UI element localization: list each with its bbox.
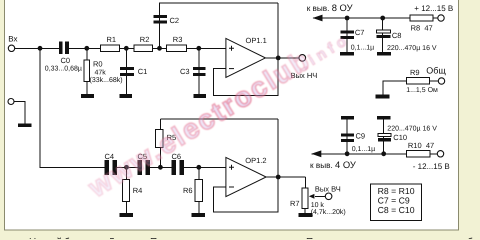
- svg-text:C0: C0: [61, 56, 71, 65]
- svg-text:OP1.2: OP1.2: [245, 156, 266, 165]
- svg-text:R6: R6: [183, 186, 193, 195]
- terminal +12V: [438, 15, 444, 21]
- ground below R6: [191, 213, 205, 217]
- wire C6 to opamp2: [184, 166, 226, 168]
- svg-text:C7 = C9: C7 = C9: [378, 196, 410, 206]
- wire C10 leads: [383, 119, 385, 154]
- node junction C10 rail: [381, 151, 386, 156]
- resistor R0: [84, 60, 90, 81]
- svg-text:R3: R3: [173, 35, 183, 44]
- svg-text:10 k: 10 k: [311, 201, 325, 209]
- wire R4 leads: [126, 167, 128, 213]
- node junction out1: [276, 56, 281, 61]
- terminal Вых ВЧ: [325, 193, 332, 200]
- capacitor C4: [104, 160, 117, 175]
- svg-text:C1: C1: [138, 67, 148, 76]
- terminal input2: [8, 99, 14, 105]
- capacitor C1: [120, 67, 134, 76]
- node junction R0: [84, 46, 89, 51]
- wire R7 wiper to terminal: [315, 195, 325, 197]
- capacitor C6: [171, 160, 184, 175]
- svg-text:к выв. 4 ОУ: к выв. 4 ОУ: [310, 159, 356, 170]
- svg-text:R2: R2: [140, 35, 150, 44]
- svg-text:R0: R0: [93, 60, 103, 69]
- svg-text:(4,7k...20k): (4,7k...20k): [311, 208, 346, 216]
- svg-text:+ 12...15 В: + 12...15 В: [414, 4, 453, 13]
- node junction C2: [157, 46, 162, 51]
- svg-text:OP1.1: OP1.1: [246, 36, 267, 45]
- svg-text:Пример: Пример: [306, 237, 343, 239]
- op-amp U1 OP1.1: [226, 38, 266, 77]
- op-amp U2 OP1.2: [226, 157, 266, 196]
- wire input2 terminal to ground: [14, 102, 25, 124]
- info box R8=R10: [371, 184, 422, 221]
- node junction input split: [38, 46, 43, 51]
- wire R2-R3: [153, 47, 167, 49]
- svg-text:220...470µ 16 V: 220...470µ 16 V: [387, 125, 437, 132]
- node junction C5-R5: [158, 165, 163, 170]
- wire R1-R2: [120, 47, 134, 49]
- capacitor C8 electrolytic: [376, 30, 390, 38]
- capacitor C5: [138, 160, 151, 175]
- svg-text:R7: R7: [290, 199, 300, 208]
- capacitor C2: [153, 15, 166, 24]
- wire R3 to opamp: [186, 47, 226, 49]
- terminal Вых НЧ: [299, 55, 306, 62]
- resistor R9: [406, 78, 429, 84]
- ground above C10: [377, 116, 390, 120]
- wire C8 leads: [382, 18, 384, 52]
- node junction C8 rail: [380, 16, 385, 21]
- svg-text:Общ: Общ: [426, 66, 446, 76]
- wire input to C0: [15, 47, 59, 49]
- wire R7 top lead: [304, 177, 306, 188]
- svg-text:Полоса: Полоса: [150, 237, 185, 239]
- svg-text:C7: C7: [355, 28, 365, 37]
- ground input2: [18, 124, 32, 128]
- terminal Общ: [438, 78, 444, 84]
- wire C0 to R1: [69, 47, 101, 49]
- svg-text:C10: C10: [393, 133, 407, 142]
- svg-text:Вых ВЧ: Вых ВЧ: [315, 184, 341, 193]
- svg-text:C9: C9: [356, 132, 366, 141]
- capacitor C0: [59, 41, 69, 54]
- svg-text:R8 = R10: R8 = R10: [378, 186, 415, 196]
- resistor R10: [406, 151, 429, 157]
- potentiometer R7: [302, 188, 314, 209]
- ground below C1: [119, 94, 132, 98]
- svg-text:R1: R1: [107, 35, 117, 44]
- svg-text:220...470µ 16 V: 220...470µ 16 V: [387, 45, 437, 52]
- terminal -12V: [437, 151, 443, 157]
- wire C4-C5: [117, 166, 138, 168]
- svg-text:Низкий: Низкий: [29, 237, 62, 239]
- resistor R5: [156, 130, 164, 148]
- node junction C1: [124, 46, 129, 51]
- resistor R4: [123, 180, 130, 202]
- node junction out2: [276, 175, 281, 180]
- wire C5-C6: [150, 166, 171, 168]
- node junction C9 rail: [345, 151, 350, 156]
- resistor R3: [166, 45, 186, 52]
- wire R10 right lead: [430, 153, 438, 155]
- capacitor C10 electrolytic: [378, 133, 391, 141]
- resistor R8: [410, 15, 433, 21]
- wire -supply rail: [311, 153, 437, 155]
- svg-text:R8 47: R8 47: [411, 24, 433, 33]
- capacitor C7: [341, 30, 354, 39]
- ground above C9: [341, 116, 354, 120]
- wire opamp2 output: [266, 176, 305, 178]
- svg-text:C8 = C10: C8 = C10: [378, 205, 415, 215]
- svg-text:R9: R9: [410, 68, 420, 77]
- svg-text:C2: C2: [170, 16, 180, 25]
- svg-text:C3: C3: [180, 67, 190, 76]
- ground below R0: [81, 94, 94, 98]
- wire +supply rail: [313, 17, 438, 19]
- svg-text:1...1,5 Ом: 1...1,5 Ом: [406, 87, 438, 94]
- ground below C3: [193, 94, 206, 98]
- wire feedback1 loop: [214, 58, 279, 96]
- wire C2 branch: [160, 3, 279, 48]
- svg-text:R10 47: R10 47: [408, 141, 434, 150]
- resistor R6: [195, 180, 203, 202]
- svg-text:Доп: Доп: [108, 237, 126, 239]
- wire C9 leads: [346, 119, 348, 154]
- svg-text:работ: работ: [456, 237, 480, 239]
- wire C3 leads: [198, 48, 200, 95]
- svg-text:блок: блок: [64, 237, 86, 239]
- wire feedback2 loop: [214, 177, 279, 212]
- wire opamp1 output: [265, 57, 299, 59]
- wire feedback2 top: [160, 118, 278, 120]
- arrow to pin 4: [311, 150, 321, 157]
- ground below R7: [298, 213, 312, 217]
- svg-text:- 12...15 В: - 12...15 В: [413, 162, 450, 171]
- wire R5 leads: [159, 119, 161, 167]
- wire R7 bottom lead: [304, 209, 306, 213]
- capacitor C3: [193, 67, 206, 76]
- resistor R1: [101, 45, 120, 52]
- svg-text:(33k...68k): (33k...68k): [90, 76, 123, 84]
- wire C7 leads: [346, 18, 348, 52]
- node junction C3: [196, 46, 201, 51]
- svg-text:47k: 47k: [95, 69, 107, 77]
- resistor R2: [134, 45, 153, 52]
- wire R9 to ground: [383, 81, 407, 95]
- wire feedback2 up: [277, 119, 279, 177]
- ground below R4: [120, 213, 133, 217]
- node junction C4-R4: [124, 165, 129, 170]
- svg-text:0,1...1µ: 0,1...1µ: [352, 146, 376, 153]
- wire R0 leads: [86, 48, 88, 95]
- wire C1 leads: [125, 48, 127, 95]
- bottom caption fragments: [29, 237, 480, 240]
- wire feedback1 up: [277, 3, 279, 58]
- ground below R9: [375, 95, 389, 99]
- wire vertical input split: [40, 48, 104, 167]
- ground below C8: [377, 52, 391, 56]
- svg-text:к выв. 8 ОУ: к выв. 8 ОУ: [307, 2, 353, 13]
- svg-text:R4: R4: [133, 186, 143, 195]
- svg-text:0,1...1µ: 0,1...1µ: [351, 44, 375, 51]
- ground below C7: [340, 52, 354, 56]
- svg-text:Вх: Вх: [8, 34, 17, 43]
- node junction C6-R6: [196, 165, 201, 170]
- svg-text:0,33...0,68µ: 0,33...0,68µ: [45, 65, 82, 72]
- node junction C7 rail: [345, 16, 350, 21]
- arrow to pin 8: [313, 15, 323, 22]
- svg-text:C8: C8: [392, 31, 402, 40]
- terminal Вх: [8, 45, 14, 51]
- wire R9 right lead: [429, 80, 438, 82]
- capacitor C9: [341, 133, 354, 142]
- wire R6 leads: [198, 167, 200, 213]
